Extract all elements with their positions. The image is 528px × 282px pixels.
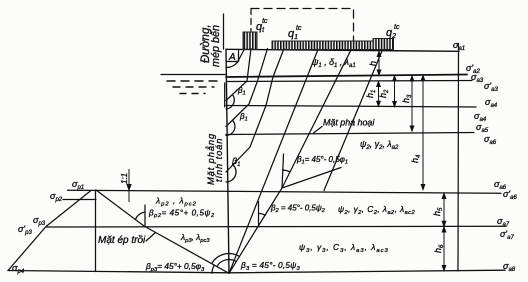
- leader for Mat ep troi: [146, 233, 156, 242]
- arc at D1 foot: [226, 95, 234, 110]
- dim h6: [443, 227, 445, 271]
- dimension arrows and lines: [127, 52, 446, 271]
- dashed load outline top: [251, 9, 354, 41]
- layer line L2b: [226, 81, 472, 82]
- slip line D3 (refracts at layer lines): [226, 49, 284, 173]
- slip line D2 (refracts at layer lines): [226, 49, 268, 127]
- beta3 arc inner: [217, 259, 237, 266]
- P1 direction line beta1: [282, 168, 341, 189]
- embankment second level short line: [63, 199, 96, 201]
- layer line L3: [226, 106, 476, 108]
- load q_2 strip: [373, 39, 394, 50]
- load q_1 strip: [272, 41, 373, 50]
- wall face tick below water: [224, 83, 226, 107]
- dashed outline left drop: [250, 9, 252, 32]
- passive dredge slope: [96, 190, 229, 273]
- slip line D1 (refracts at layer lines): [226, 49, 251, 101]
- P1 vertical tick: [282, 154, 284, 188]
- beta2 vertical tick: [258, 202, 260, 227]
- dim h4: [422, 76, 424, 190]
- layer line L4: [226, 133, 474, 135]
- ground line: [226, 49, 459, 51]
- water dashes row3: [180, 93, 205, 95]
- arc at A: [226, 62, 238, 68]
- bottom line: [8, 270, 505, 273]
- svg-text:Mặt phá hoại: Mặt phá hoại: [323, 118, 375, 128]
- arc at beta2 vertex: [259, 213, 266, 215]
- wall vertical: [226, 49, 229, 273]
- svg-text:h: h: [368, 61, 378, 66]
- dim h3: [411, 76, 413, 131]
- svg-text:A: A: [228, 52, 236, 63]
- layer line L6 / berm line: [46, 225, 506, 228]
- embankment upper-left slope: [46, 191, 91, 227]
- slip stub at A: [237, 49, 245, 63]
- A-box bottom edge: [226, 61, 239, 63]
- dim h1: [378, 82, 380, 107]
- leader for Mat pha hoai: [314, 127, 323, 134]
- beta-p2 tick: [144, 205, 146, 226]
- water surface line: [161, 74, 225, 76]
- dim h2: [394, 76, 396, 107]
- arc at D2 foot: [226, 120, 235, 135]
- svg-text:1:1: 1:1: [120, 173, 129, 184]
- beta-p3 arc left: [212, 265, 214, 273]
- fan line F2: [229, 50, 318, 274]
- svg-text:mép bến: mép bến: [210, 25, 222, 67]
- layer line L5 (continues from mound plateau): [68, 190, 502, 193]
- svg-text:β1= 45°- 0,5φ1: β1= 45°- 0,5φ1: [296, 155, 348, 166]
- mound vertical: [95, 190, 97, 272]
- dim h: [378, 52, 380, 76]
- load q_t box: [243, 32, 257, 50]
- svg-text:Mặt ép trồi: Mặt ép trồi: [98, 234, 146, 246]
- beta3 arc outer: [212, 254, 240, 264]
- dim h5: [443, 194, 445, 227]
- arc at P1: [283, 170, 290, 172]
- layer line L2a (water table): [226, 75, 467, 78]
- water dashes row1: [167, 80, 223, 82]
- failure surface F1 polyline: [229, 50, 351, 273]
- svg-text:tính toán: tính toán: [214, 138, 224, 182]
- berth edge vertical: [223, 14, 225, 49]
- sigma-a right vertical: [457, 44, 460, 271]
- 1:1 tick with arrow: [128, 169, 130, 202]
- svg-text:β2 = 45°- 0,5ψ2: β2 = 45°- 0,5ψ2: [270, 204, 325, 215]
- A-box right edge: [238, 49, 240, 61]
- embankment lower-left slope: [8, 227, 46, 271]
- beta-p2 arc: [135, 212, 145, 220]
- slip line D6: [324, 50, 383, 191]
- arc at D3 foot: [226, 165, 236, 182]
- water dashes row2: [173, 86, 214, 88]
